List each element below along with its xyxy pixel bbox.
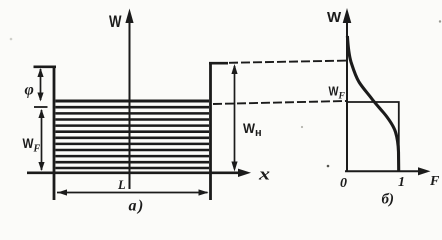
fermi distribution curve <box>347 36 398 171</box>
left wall <box>53 66 56 201</box>
axis x (left diagram baseline) <box>27 172 240 175</box>
svg-text:F: F <box>33 144 41 155</box>
svg-text:W: W <box>23 135 35 151</box>
right wall <box>209 62 212 200</box>
svg-text:φ: φ <box>25 82 34 99</box>
svg-text:L: L <box>117 178 126 192</box>
svg-text:F: F <box>429 174 440 189</box>
dashed line top (well top level) <box>229 61 346 63</box>
left wall cap <box>34 66 57 69</box>
noise speck 4 <box>327 165 330 168</box>
svg-text:W: W <box>109 12 122 31</box>
svg-text:F: F <box>338 92 346 102</box>
noise speck 2 <box>439 20 441 22</box>
svg-text:1: 1 <box>398 175 405 190</box>
hatch lines (filled states) <box>56 101 210 168</box>
svg-text:W: W <box>243 120 256 136</box>
axis F <box>345 170 420 172</box>
fermi tick <box>34 106 48 108</box>
box (T=0 step function) <box>347 102 399 171</box>
dashed line WF level <box>213 101 346 104</box>
svg-text:x: x <box>258 165 271 184</box>
axis W (right diagram) <box>346 20 348 172</box>
svg-text:W: W <box>327 9 342 26</box>
svg-text:0: 0 <box>340 176 347 191</box>
right wall cap <box>209 62 228 65</box>
svg-text:а): а) <box>129 198 145 215</box>
arrow WH (well depth) <box>234 66 236 169</box>
dimension L double arrow <box>57 192 208 194</box>
arrow phi (work function) <box>40 69 42 100</box>
arrow WF (left, fermi energy) <box>41 110 43 170</box>
svg-text:н: н <box>255 127 262 139</box>
svg-text:W: W <box>329 84 340 99</box>
noise speck 3 <box>301 126 303 128</box>
axis W (left diagram) <box>129 20 131 189</box>
svg-text:б): б) <box>382 192 394 208</box>
noise speck 1 <box>10 38 13 41</box>
